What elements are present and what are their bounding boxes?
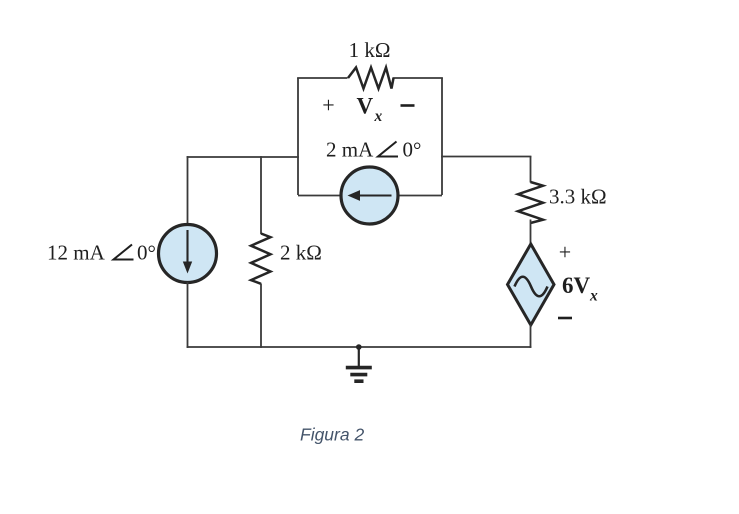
resistor R1 1 kOhm (top) bbox=[348, 68, 394, 89]
svg-text:1 kΩ: 1 kΩ bbox=[349, 38, 391, 62]
wire: top loop left edge bbox=[297, 78, 299, 195]
wire: top loop bottom-right segment bbox=[398, 195, 442, 197]
wire: right horizontal (node top-right) bbox=[441, 156, 531, 158]
svg-text:+: + bbox=[559, 240, 571, 265]
svg-text:0°: 0° bbox=[403, 138, 422, 162]
label minus (polarity of Vx, right) bbox=[401, 104, 415, 107]
label minus (polarity of 6Vx, bottom) bbox=[558, 317, 572, 320]
svg-text:x: x bbox=[589, 288, 598, 305]
wire: left horizontal (node top-left) bbox=[187, 156, 299, 158]
wire: bottom rail bbox=[187, 346, 532, 348]
svg-text:2 kΩ: 2 kΩ bbox=[280, 241, 322, 265]
sine symbol inside dependent source bbox=[515, 277, 548, 297]
svg-text:x: x bbox=[374, 108, 383, 125]
svg-text:3.3 kΩ: 3.3 kΩ bbox=[549, 185, 607, 209]
arrow of current source I2 (pointing left) bbox=[358, 194, 392, 196]
current source I2 2 mA (circle) bbox=[341, 167, 398, 224]
wire: top loop bottom-left segment bbox=[298, 195, 341, 197]
wire: top loop top-right segment bbox=[393, 77, 443, 79]
angle symbol of 2 mA source label bbox=[378, 142, 398, 157]
arrow of current source I1 (pointing down) bbox=[186, 230, 188, 264]
dependent source U1 6Vx (diamond) bbox=[508, 244, 555, 325]
wire: top loop top-left segment bbox=[297, 77, 347, 79]
resistor R3 3.3 kOhm (vertical) bbox=[518, 182, 543, 223]
wire: top loop right edge bbox=[441, 78, 443, 195]
svg-text:+: + bbox=[322, 93, 334, 118]
svg-text:2 mA: 2 mA bbox=[326, 138, 374, 162]
wire: 2 kOhm branch upper bbox=[260, 156, 262, 234]
current source I1 12 mA (circle) bbox=[159, 225, 217, 283]
wire: left branch upper bbox=[187, 156, 189, 225]
resistor R2 2 kOhm (vertical) bbox=[251, 234, 271, 284]
junction dot at ground node bbox=[356, 344, 362, 350]
svg-text:0°: 0° bbox=[137, 241, 156, 265]
svg-text:12 mA: 12 mA bbox=[47, 241, 106, 265]
wire: right branch lower bbox=[530, 325, 532, 348]
wire: 2 kOhm branch lower bbox=[260, 284, 262, 348]
svg-text:Figura 2: Figura 2 bbox=[300, 425, 364, 445]
svg-text:6V: 6V bbox=[562, 273, 591, 298]
wire: left branch lower bbox=[187, 282, 189, 348]
wire: right branch upper bbox=[530, 156, 532, 182]
ground symbol bbox=[346, 347, 372, 381]
svg-text:V: V bbox=[357, 94, 374, 119]
wire: right branch middle (resistor to dependent source) bbox=[530, 220, 532, 246]
angle symbol of 12 mA source label bbox=[114, 245, 134, 260]
